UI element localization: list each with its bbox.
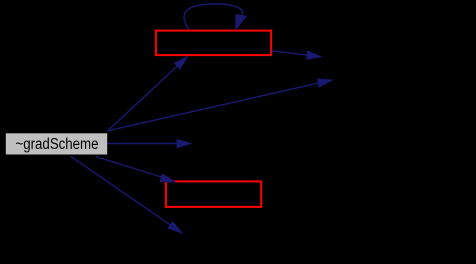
wire edge top node to right target bbox=[272, 51, 322, 59]
wire edge gradScheme horizontal to middle target bbox=[108, 140, 192, 148]
svg-text:~gradScheme: ~gradScheme bbox=[16, 136, 99, 153]
wire edge gradScheme to bottom target bbox=[71, 157, 182, 234]
wire self-loop on top node bbox=[184, 4, 246, 30]
wire edge gradScheme to lower red node bbox=[96, 157, 175, 183]
wire edge gradScheme to right upper target bbox=[108, 79, 333, 131]
node top (truncated callee, red border) bbox=[156, 31, 271, 55]
node lower (truncated callee, red border) bbox=[166, 181, 261, 207]
wire edge gradScheme to top node bbox=[107, 57, 188, 132]
node ~gradScheme (current node, grey) bbox=[5, 133, 107, 155]
